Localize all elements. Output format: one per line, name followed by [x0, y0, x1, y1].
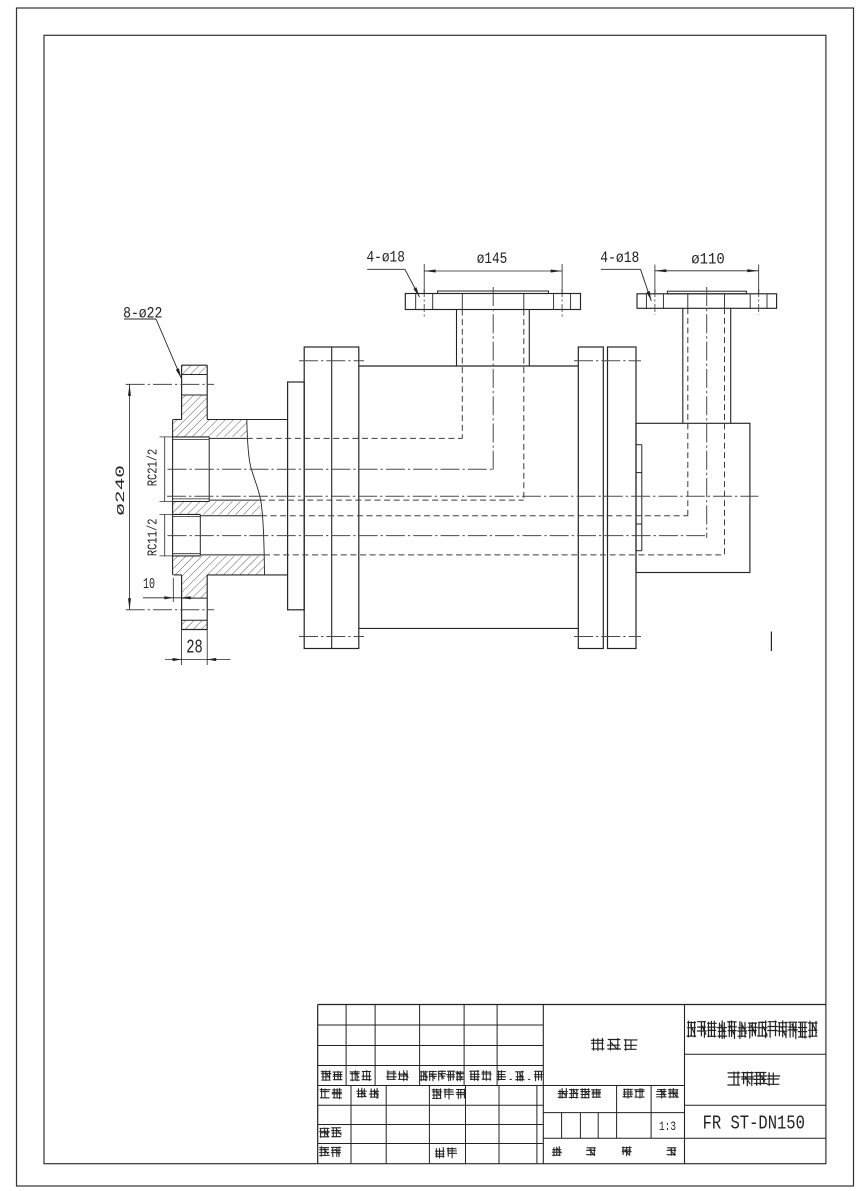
gland step rectangle [288, 382, 305, 610]
main center line [167, 495, 759, 497]
hub step bottom [173, 574, 181, 576]
hidden passage 2 bottom edge [264, 554, 725, 556]
hatch: hub neck top wall [173, 420, 247, 437]
disc 2A [578, 347, 603, 649]
flange 1 bolt hole edges [415, 294, 417, 310]
dim 28 [181, 630, 183, 666]
svg-text:28: 28 [186, 637, 203, 659]
pipe 2 bore hidden left [687, 308, 689, 516]
flange 1 right bolt center [561, 289, 563, 317]
top flange 1 raised lip [438, 291, 549, 294]
svg-text:10: 10 [143, 576, 155, 593]
pipe 1 outer walls [456, 310, 458, 367]
left flange plate outline [182, 364, 208, 366]
sleeve top edge [207, 419, 287, 421]
large disc 1 [304, 347, 359, 649]
leader 8-o22 [124, 318, 156, 320]
disc 1 bolt line bottom [299, 636, 364, 638]
left flange internal band lines [182, 374, 208, 376]
top flange 1 outline [405, 294, 580, 310]
RC21/2 extent line [164, 437, 166, 502]
leader 4-o18 #2 [601, 268, 641, 270]
hidden passage 1 bottom edge [259, 499, 524, 501]
svg-text:ø110: ø110 [691, 250, 725, 268]
middle block cols [616, 1086, 618, 1139]
pipe 1 bore in flange (solid) [461, 294, 463, 310]
row5 design row [320, 1088, 342, 1099]
hub step top [173, 419, 181, 421]
svg-text:1:3: 1:3 [659, 1119, 676, 1134]
pipe 1 bore hidden right [523, 310, 525, 501]
top flange 2 raised lip [667, 291, 746, 294]
svg-text:RC21/2: RC21/2 [146, 449, 162, 487]
middle block rows [543, 1112, 684, 1114]
svg-text:RC11/2: RC11/2 [146, 519, 162, 557]
RC11/2 port bore bottom [173, 555, 201, 557]
flange 1 left bolt center [423, 289, 425, 317]
leader 4-o18 #1 [367, 268, 405, 270]
left flange bolt circle bottom [126, 609, 214, 611]
row4 labels [321, 1071, 342, 1081]
RC21/2 thread minor top [172, 439, 209, 441]
sheet count row [552, 1147, 561, 1156]
hidden passage 1 top edge [247, 437, 462, 439]
RC21/2 thread minor bottom [172, 498, 210, 500]
flange 2 right bolt center [758, 289, 760, 315]
seal detail strip [641, 445, 643, 551]
disc 1 middle plate line [331, 347, 333, 649]
hidden passage 2 top edge [261, 515, 688, 517]
row8 process row [320, 1147, 341, 1157]
main body top edge [359, 365, 579, 367]
stray tick mark right side [770, 632, 772, 652]
dim o145 extension lines [423, 264, 425, 294]
company name [687, 1021, 817, 1039]
schematic label [591, 1039, 637, 1051]
row7 check row [320, 1128, 342, 1138]
RC21/2 port center line [168, 468, 495, 470]
disc 2 bolt line top [574, 360, 641, 362]
pipe 2 outer walls [682, 308, 684, 423]
RC11/2 thread minor bottom [173, 553, 201, 555]
dim o240 line [129, 384, 131, 609]
title block left rows [318, 1024, 544, 1026]
flange 2 left bolt center [654, 289, 656, 315]
disc 2 bolt line bottom [574, 636, 641, 638]
svg-text:ø240: ø240 [113, 465, 128, 516]
sleeve bottom edge [207, 574, 287, 576]
hatch: wall below RC11/2 port [173, 556, 264, 575]
flange 2 bolt hole edges [645, 294, 647, 309]
RC21/2 port depth face [208, 437, 210, 502]
RC11/2 extent line [164, 514, 166, 556]
title block left cols rows1-4 [345, 1005, 347, 1086]
pipe 2 center line [706, 287, 708, 538]
hatch: left flange bottom band [182, 620, 208, 629]
RC11/2 port center line [168, 535, 706, 537]
title block left cols rows5-8 [350, 1086, 352, 1164]
disc 2B [608, 347, 637, 649]
title block outline [318, 1004, 826, 1006]
RC11/2 thread minor top [173, 516, 201, 518]
hatch: left flange upper web [182, 395, 208, 420]
dim o110 line [655, 270, 759, 272]
part name xuan zhuan jie tou [728, 1072, 780, 1086]
RC21/2 port bore top [172, 436, 209, 438]
dim o145 line [424, 270, 562, 272]
pipe 1 center line [492, 287, 494, 472]
top flange 2 outline [637, 294, 777, 309]
left flange bolt circle top [126, 383, 214, 385]
break line S-curve [247, 420, 265, 575]
svg-text:8-ø22: 8-ø22 [123, 305, 162, 323]
RC11/2 port depth face [199, 514, 201, 556]
stage mark weight scale [558, 1088, 601, 1098]
hub face left edge [172, 420, 174, 575]
svg-text:4-ø18: 4-ø18 [600, 249, 639, 267]
right block rows [685, 1053, 826, 1055]
disc 1 bolt line top [299, 360, 364, 362]
hatch: left flange top band [182, 365, 208, 374]
svg-text:FR ST-DN150: FR ST-DN150 [703, 1113, 805, 1135]
pipe 1 bore hidden left [461, 310, 463, 439]
pipe 2 bore hidden right [724, 308, 726, 555]
main body bottom edge [359, 627, 579, 629]
pipe 2 bore in flange (solid) [687, 294, 689, 309]
svg-text:4-ø18: 4-ø18 [367, 249, 405, 267]
hatch: left flange lower web [182, 575, 208, 598]
svg-text:ø145: ø145 [477, 250, 508, 268]
dim 10 [172, 578, 174, 602]
RC21/2 port bore bottom [172, 501, 210, 503]
dim o110 extension lines [654, 265, 656, 294]
right body housing [636, 423, 750, 572]
RC11/2 port bore top [173, 513, 201, 515]
hatch: wall between ports [173, 502, 261, 515]
